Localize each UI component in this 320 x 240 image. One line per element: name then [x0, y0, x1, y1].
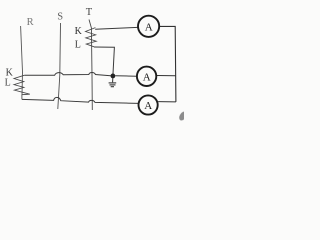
svg-text:L: L: [75, 40, 81, 51]
svg-text:K: K: [75, 26, 83, 37]
svg-text:L: L: [5, 78, 11, 89]
svg-text:R: R: [27, 17, 34, 28]
svg-text:S: S: [57, 12, 63, 23]
svg-text:A: A: [144, 100, 152, 112]
svg-text:A: A: [145, 21, 153, 33]
svg-text:T: T: [86, 7, 93, 18]
svg-text:A: A: [143, 71, 151, 83]
